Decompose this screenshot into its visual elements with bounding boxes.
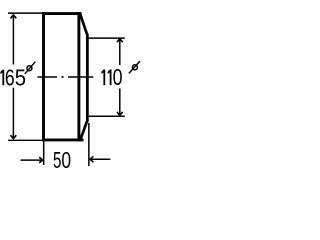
part outline: top chamfer	[80, 14, 87, 35]
part outline: bottom chamfer	[80, 121, 87, 140]
diameter symbol for 110	[129, 61, 140, 73]
dimension line 50 left shaft	[21, 159, 43, 161]
dimension line 165 lower segment	[12, 88, 14, 139]
arrowhead 50 right (points left)	[90, 156, 93, 162]
part outline: flange top edge	[42, 12, 82, 15]
centerline dash 1	[38, 76, 58, 78]
label 110: digit 1 (second)	[108, 70, 112, 86]
diameter symbol for 165	[25, 62, 36, 74]
dimension line 50 right shaft	[90, 158, 110, 160]
part outline: flange left edge	[42, 12, 45, 141]
arrowhead 110 top (points up)	[117, 39, 123, 42]
extension line top (110)	[88, 37, 125, 39]
label 110: digit 1 (first)	[101, 70, 105, 86]
dimension line 110 upper segment	[119, 39, 121, 65]
centerline dot	[61, 76, 63, 78]
arrowhead 50 left (points right)	[39, 157, 42, 163]
label 165: digit 6	[5, 64, 26, 90]
arrowhead 165 bottom (points down)	[11, 135, 17, 138]
dimension line 110 lower segment	[119, 89, 121, 116]
svg-text:5: 5	[53, 147, 61, 173]
extension line bottom (165)	[8, 139, 42, 141]
svg-text:6: 6	[5, 64, 15, 90]
label 165: digit 1	[0, 70, 4, 86]
svg-text:0: 0	[61, 147, 71, 173]
part outline: flange bottom edge	[42, 138, 83, 141]
centerline dash 2	[68, 76, 93, 78]
extension line right (50)	[88, 123, 90, 166]
svg-text:5: 5	[15, 64, 26, 90]
svg-text:0: 0	[113, 64, 123, 90]
arrowhead 110 bottom (points down)	[117, 112, 123, 115]
part outline: right face	[86, 34, 89, 122]
part outline: inner vertical edge (chamfer start plane)	[77, 12, 80, 141]
extension line left (50)	[43, 141, 45, 165]
extension line top (165)	[8, 12, 42, 14]
arrowhead 165 top (open barbs, points up)	[11, 15, 17, 18]
extension line bottom (110)	[88, 115, 125, 117]
dimension line 165 upper segment	[12, 15, 14, 65]
label 50	[53, 147, 71, 173]
